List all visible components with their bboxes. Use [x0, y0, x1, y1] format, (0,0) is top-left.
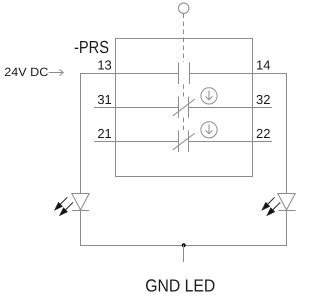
- svg-text:31: 31: [97, 92, 111, 107]
- svg-text:GND LED: GND LED: [145, 276, 215, 296]
- svg-text:22: 22: [256, 126, 270, 141]
- svg-text:14: 14: [256, 58, 270, 73]
- svg-text:-PRS: -PRS: [74, 37, 109, 57]
- svg-text:32: 32: [256, 92, 270, 107]
- svg-text:13: 13: [97, 58, 111, 73]
- svg-text:24V DC: 24V DC: [4, 65, 48, 79]
- svg-text:21: 21: [97, 126, 111, 141]
